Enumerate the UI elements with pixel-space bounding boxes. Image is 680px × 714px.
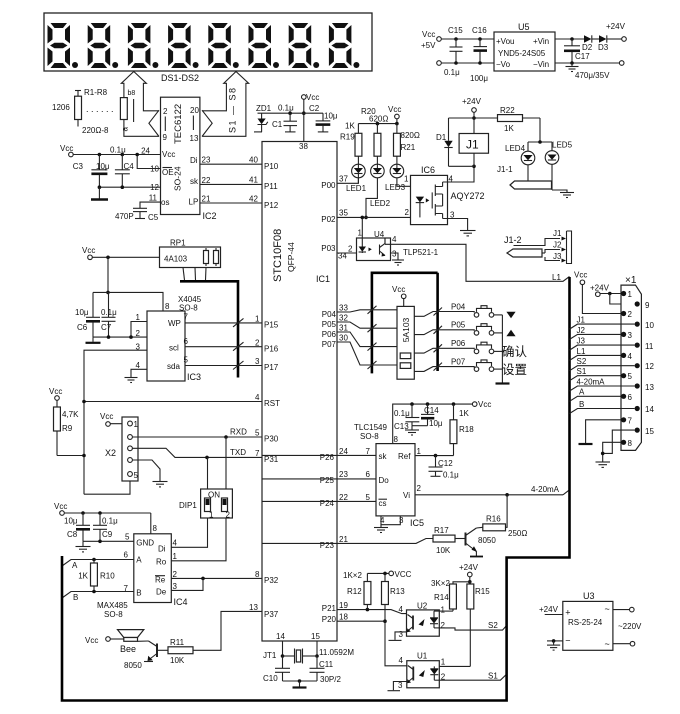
svg-text:U5: U5 [518,22,530,32]
svg-text:1: 1 [255,315,260,324]
svg-text:2: 2 [163,107,168,116]
svg-text:R17: R17 [434,526,449,535]
wire X4045 pin4 to ground [125,369,148,382]
resistor R20 620ohm [361,107,388,164]
svg-text:B: B [579,400,584,409]
svg-text:P24: P24 [320,499,335,508]
svg-text:C12: C12 [438,459,453,468]
wire U2 pin3 to ground [389,632,407,641]
Vcc terminal (C8 C9) [54,502,158,534]
svg-text:P07: P07 [451,358,466,367]
Vcc terminal (X1) [574,271,621,314]
wire DIP1 pin1 to TXD [207,457,209,489]
label arrow down [506,312,515,319]
svg-text:Vcc: Vcc [574,271,587,280]
capacitor C16 100u [470,26,488,83]
wire DIP1 pin2 to Ro [171,518,226,561]
svg-text:+24V: +24V [459,563,479,572]
svg-text:LED1: LED1 [346,184,367,193]
svg-text:2: 2 [628,310,633,319]
svg-text:R15: R15 [475,587,490,596]
svg-text:7: 7 [366,447,371,456]
wire A (MAX485 pin6) [62,558,134,570]
svg-text:4,7K: 4,7K [62,410,79,419]
wire P03 to U4 [337,252,357,254]
svg-text:RST: RST [264,399,280,408]
svg-text:3: 3 [398,681,403,690]
svg-text:1K: 1K [78,572,88,581]
svg-text:6: 6 [366,470,371,479]
svg-text:1: 1 [404,175,409,184]
svg-text:1: 1 [417,447,422,456]
svg-text:5: 5 [184,356,189,365]
svg-text:WP: WP [168,319,181,328]
LED5 [545,141,572,191]
wire LED3 to IC6 pin1 [397,178,420,197]
svg-text:22: 22 [202,176,211,185]
resistor R21 820ohm [394,124,420,164]
connector J1-2 [504,229,572,264]
Vcc terminal (R9) [49,387,62,400]
svg-text:U4: U4 [374,230,385,239]
svg-text:C11: C11 [319,660,334,669]
svg-text:IC2: IC2 [203,211,217,221]
svg-text:23: 23 [339,470,348,479]
svg-text:P15: P15 [264,321,279,330]
svg-text:P04: P04 [451,303,466,312]
svg-text:P02: P02 [321,215,336,224]
svg-text:3: 3 [392,250,397,259]
svg-text:设置: 设置 [502,362,527,377]
svg-text:2: 2 [441,621,446,630]
wire Vcc to C6 C7 rail [93,257,170,311]
wire P07 key row [337,342,474,371]
svg-text:Vcc: Vcc [306,93,319,102]
svg-text:38: 38 [299,142,308,151]
svg-text:6: 6 [124,551,129,560]
svg-text:4: 4 [136,361,141,370]
capacitor C11 30P [310,656,342,684]
svg-text:C9: C9 [102,530,113,539]
resistor R10 1K [78,560,115,592]
svg-text:31: 31 [339,324,348,333]
svg-text:P30: P30 [264,435,279,444]
svg-text:0.1μ: 0.1μ [394,409,410,418]
svg-text:D3: D3 [598,43,609,52]
svg-text:21: 21 [339,535,348,544]
svg-text:~: ~ [605,604,610,614]
+24V terminal (X1) [590,284,635,305]
svg-text:Bee: Bee [120,644,136,654]
svg-text:9: 9 [163,133,168,142]
svg-text:QFP-44: QFP-44 [286,242,296,272]
svg-text:U2: U2 [417,602,428,611]
svg-text:os: os [161,198,169,207]
svg-text:TEC6122: TEC6122 [173,104,184,144]
svg-text:1K: 1K [345,122,355,131]
svg-text:S2: S2 [577,357,587,366]
resistor R15 [439,582,490,667]
svg-text:15: 15 [645,427,654,436]
svg-text:Vcc: Vcc [82,246,95,255]
Vcc terminal (left of IC2) [60,144,161,157]
svg-text:C3: C3 [73,162,84,171]
svg-text:J1-1: J1-1 [497,165,513,174]
svg-text:C17: C17 [575,52,590,61]
svg-text:4-20mA: 4-20mA [531,485,560,494]
resistor R12 [347,573,371,609]
Vcc node pin38 [258,93,324,151]
svg-text:LED5: LED5 [552,141,573,150]
svg-text:8: 8 [165,302,170,311]
svg-text:1: 1 [628,290,633,299]
svg-text:STC10F08: STC10F08 [272,229,284,282]
wire S1 to X1 pin5 [570,367,622,381]
connector J1-1 plug [497,165,552,189]
svg-text:×1: ×1 [625,275,637,286]
wire J3 to X1 pin11 [570,337,635,351]
wire U4 pin3 to ground [391,253,405,265]
svg-text:Vcc: Vcc [388,105,401,114]
Vcc terminal (5A103) [392,285,406,306]
svg-text:13: 13 [249,603,258,612]
svg-text:OE: OE [162,168,174,177]
transistor 8050 (4-20mA) [466,528,497,556]
svg-text:J2: J2 [553,241,562,250]
svg-text:C2: C2 [309,104,320,113]
svg-text:5: 5 [255,429,260,438]
svg-text:5: 5 [366,493,371,502]
isolation thick border [62,277,570,701]
capacitor C15 0.1u [444,26,463,77]
svg-text:P32: P32 [264,576,279,585]
resistor R11 10K [158,638,193,665]
wire IC6 pin4 to J1 [443,165,476,183]
wire Re De to P32 [171,577,262,591]
svg-text:P06: P06 [322,330,337,339]
svg-text:P25: P25 [320,476,335,485]
svg-text:R16: R16 [486,515,501,524]
svg-text:23: 23 [202,156,211,165]
optocoupler U1 [398,652,446,691]
svg-text:SO-8: SO-8 [360,432,379,441]
wires RP1 to thick bus [183,268,206,281]
svg-text:24: 24 [339,447,348,456]
svg-text:J2: J2 [577,326,586,335]
svg-text:TLC1549: TLC1549 [354,423,387,432]
svg-text:4: 4 [628,352,633,361]
svg-text:40: 40 [249,156,258,165]
svg-text:11: 11 [149,194,158,203]
svg-text:A: A [72,561,78,570]
svg-text:SO-8: SO-8 [104,610,123,619]
svg-text:SO-24: SO-24 [173,166,183,191]
LED3 [385,164,406,192]
wire B to X1 pin14 [570,400,635,414]
svg-text:3K×2: 3K×2 [431,579,450,588]
svg-text:S2: S2 [488,621,498,630]
svg-text:11: 11 [645,342,654,351]
bus arrow left (segment bus a-b8) [121,72,160,137]
svg-text:8: 8 [153,524,158,533]
svg-text:4-20mA: 4-20mA [577,377,606,386]
capacitor C12 0.1u [429,456,460,480]
ground (8050) [470,556,483,558]
svg-text:+24V: +24V [606,22,626,31]
svg-text:1: 1 [209,511,214,520]
svg-text:VCC: VCC [395,570,412,579]
key SW P07 [474,360,502,372]
svg-text:LP: LP [189,198,199,207]
svg-text:7: 7 [255,449,260,458]
svg-text:A: A [136,556,142,565]
label arrow up [506,330,515,337]
svg-text:+24V: +24V [590,284,610,293]
capacitor C14 10u [421,404,443,428]
wire LED5 to ground [552,190,574,198]
resistor R22 1K [474,106,540,133]
svg-text:IC4: IC4 [174,597,188,607]
Vcc rail (TLC1549) [393,400,492,444]
svg-text:确认: 确认 [502,345,528,359]
svg-text:−: − [565,636,570,646]
svg-text:22: 22 [339,493,348,502]
svg-text:B: B [73,593,78,602]
svg-text:2: 2 [136,329,141,338]
svg-text:8050: 8050 [124,661,142,670]
svg-text:P05: P05 [451,321,466,330]
svg-text:37: 37 [339,175,348,184]
svg-text:P26: P26 [320,453,335,462]
wire X2 pin5 return [84,481,130,494]
capacitor C4 0.1u [110,146,134,188]
svg-text:Vcc: Vcc [478,400,491,409]
svg-text:8: 8 [628,439,633,448]
wire J1 to X1 pin10 [570,316,635,330]
svg-text:C8: C8 [67,530,78,539]
svg-text:Re: Re [155,576,166,585]
svg-text:IC6: IC6 [421,165,435,175]
svg-text:R10: R10 [100,572,115,581]
Vcc terminal (LED rail) [358,105,401,125]
wire DIP1 pin1 to Di [171,518,207,547]
svg-text:2: 2 [348,245,353,254]
optocoupler U2 [399,602,446,640]
svg-text:7: 7 [628,417,633,426]
svg-text:R21: R21 [401,143,416,152]
wire S2 to X1 pin12 [570,357,635,371]
svg-text:Di: Di [190,156,198,165]
svg-text:10μ: 10μ [429,419,443,428]
svg-text:. . . . . .: . . . . . . [86,104,114,114]
thick bus (RP1 to P15-P17) [180,281,238,377]
bus arrow right (S1-S8) [202,72,249,137]
svg-text:100μ: 100μ [470,74,488,83]
wire Ref [415,454,454,458]
wire J2 to X1 pin3 [570,326,622,340]
relay J1 [459,134,488,167]
svg-text:cs: cs [379,499,387,508]
svg-text:−Vo: −Vo [496,60,511,69]
svg-text:3: 3 [255,357,260,366]
svg-text:Vcc: Vcc [100,412,113,421]
wire X4045 pin3 to RST net [84,350,147,494]
svg-text:220Ω-8: 220Ω-8 [82,126,109,135]
svg-text:L1: L1 [552,273,561,282]
svg-text:SO-8: SO-8 [179,304,198,313]
svg-text:Vcc: Vcc [60,144,73,153]
svg-text:5: 5 [134,471,139,480]
svg-text:6: 6 [184,337,189,346]
resistor R9 4.7K [54,400,86,457]
wire S2 [439,621,506,630]
wire P04 key row [337,303,474,317]
svg-text:4: 4 [255,393,260,402]
svg-text:13: 13 [190,134,199,143]
svg-text:GND: GND [136,539,154,548]
svg-text:Ro: Ro [156,558,167,567]
svg-text:0.1μ: 0.1μ [101,308,117,317]
keys block thick border [372,273,438,374]
wire TLC pins 3 4 to ground [374,516,400,533]
svg-text:0.1μ: 0.1μ [110,146,126,155]
MCU IC1 STC10F08 QFP-44 [249,142,348,642]
ground (IC6) [460,231,476,236]
resistor R8 (on bus line) [120,98,127,120]
wire -Vin to terminal [555,61,624,66]
resistor network RP1 4A103 [160,239,221,268]
svg-text:C10: C10 [263,674,278,683]
svg-text:4: 4 [399,656,404,665]
transistor 8050 (beeper) [124,641,157,670]
ADC IC5 TLC1549 SO-8 [354,423,424,528]
svg-text:P04: P04 [322,310,337,319]
wire LED2 to P02 net [364,178,377,219]
capacitor C6 10u [75,292,100,337]
key SW P04 [474,306,502,318]
svg-text:Vcc: Vcc [85,636,98,645]
svg-text:Do: Do [379,476,390,485]
connector X2 [105,417,139,481]
wire P20 to U1 pin4 [337,619,407,665]
wire TXD [132,448,262,459]
svg-text:10μ: 10μ [324,112,338,121]
svg-text:LED2: LED2 [370,199,391,208]
svg-text:P03: P03 [321,244,336,253]
svg-text:+Vin: +Vin [533,37,549,46]
transceiver IC4 MAX485 SO-8 [97,534,188,619]
svg-text:RS-25-24: RS-25-24 [568,618,603,627]
svg-text:9: 9 [645,301,650,310]
svg-text:0.1μ: 0.1μ [444,68,460,77]
connector X1 [621,275,654,450]
svg-text:MAX485: MAX485 [97,601,128,610]
ground rail (C6 C7 to X4045 pins 1 2) [86,322,148,343]
wire P16 (scl) [185,342,262,351]
svg-text:R1-R8: R1-R8 [84,88,108,97]
wire X1 pin7 to ground [579,420,622,444]
resistor R13 [382,573,406,621]
svg-text:+: + [565,608,570,618]
svg-text:~220V: ~220V [618,622,642,631]
wire P05 key row [337,321,474,335]
svg-text:470P: 470P [115,212,134,221]
LED2 [370,164,391,208]
svg-text:A: A [579,388,585,397]
svg-text:P31: P31 [264,455,279,464]
resistor network 5A103 [397,306,414,379]
label confirm [502,345,528,359]
svg-text:32: 32 [339,314,348,323]
svg-text:P05: P05 [322,320,337,329]
svg-text:a: a [121,127,130,132]
svg-text:TLP521-1: TLP521-1 [403,248,439,257]
svg-text:Vcc: Vcc [392,285,405,294]
svg-text:14: 14 [645,405,654,414]
svg-text:S1: S1 [488,672,498,681]
svg-text:P37: P37 [264,610,279,619]
svg-text:R11: R11 [170,638,185,647]
display DS1-DS2 [44,13,372,83]
Vcc +5V terminals [421,30,494,65]
svg-text:18: 18 [339,613,348,622]
svg-text:1: 1 [136,313,141,322]
svg-text:S1: S1 [577,367,587,376]
svg-text:D1: D1 [436,133,447,142]
svg-text:RXD: RXD [230,428,247,437]
ground (crystal) [283,679,318,687]
wire IC6 pin3 to ground [443,219,468,231]
wire P37 to R11 [193,611,262,650]
svg-text:AQY272: AQY272 [451,191,485,201]
svg-text:U1: U1 [417,652,428,661]
svg-text:4: 4 [173,539,178,548]
Vcc terminal (X2) [100,412,128,426]
svg-text:Vi: Vi [403,491,410,500]
svg-text:10K: 10K [436,546,451,555]
ground (C3) [91,187,108,199]
svg-text:3: 3 [173,582,178,591]
optocoupler IC6 AQY272 [404,165,485,225]
svg-text:P16: P16 [264,345,279,354]
svg-text:4: 4 [392,235,397,244]
svg-text:14: 14 [276,632,285,641]
svg-text:10μ: 10μ [96,162,110,171]
svg-text:IC5: IC5 [410,518,424,528]
svg-text:+24V: +24V [462,97,482,106]
wire RXD [132,428,262,439]
svg-text:1K: 1K [504,124,514,133]
svg-text:S1 — S8: S1 — S8 [228,86,238,133]
svg-text:1206: 1206 [52,103,70,112]
terminal +24V (top right) [606,22,626,41]
zener ZD1 [254,104,272,132]
svg-text:J3: J3 [577,337,586,346]
LED1 [346,164,367,193]
wire P25 [262,478,376,480]
svg-text:DS1-DS2: DS1-DS2 [161,73,199,83]
wire P06 key row [337,332,474,353]
svg-text:4: 4 [399,605,404,614]
key SW P06 [474,342,502,354]
svg-text:J1-2: J1-2 [504,235,522,245]
svg-text:scl: scl [169,344,179,353]
terminal +24V (J1) [462,97,482,134]
Vcc terminal (R12 R13) [343,570,412,580]
resistor R1 sample [52,88,114,135]
svg-text:TXD: TXD [230,448,246,457]
svg-text:R14: R14 [434,593,449,602]
